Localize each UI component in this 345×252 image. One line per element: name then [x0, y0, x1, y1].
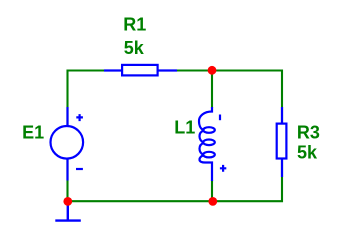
svg-text:5k: 5k [297, 142, 318, 162]
svg-text:L1: L1 [174, 118, 195, 138]
svg-text:R3: R3 [297, 123, 320, 143]
svg-text:5k: 5k [124, 38, 145, 58]
svg-text:E1: E1 [22, 123, 44, 143]
svg-text:R1: R1 [123, 14, 146, 34]
